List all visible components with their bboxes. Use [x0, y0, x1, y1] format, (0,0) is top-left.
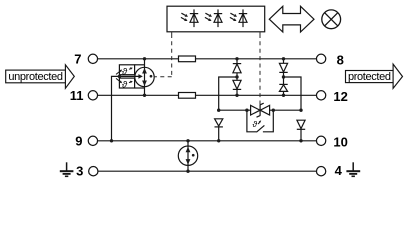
wire W1 (terminal 7 to 8)	[98, 58, 317, 60]
svg-text:ϑ: ϑ	[252, 119, 257, 129]
svg-text:8: 8	[337, 53, 344, 68]
terminal 10	[316, 136, 325, 145]
status LED 1	[181, 9, 198, 27]
svg-text:4: 4	[335, 163, 343, 178]
TVS suppressor diode	[251, 103, 270, 117]
resistor R1	[179, 56, 196, 62]
ground symbol (terminal 4)	[346, 162, 360, 176]
wire: thermal switches to ground line	[112, 76, 120, 140]
ground symbol (terminal 3)	[60, 162, 74, 176]
status LED 3	[230, 9, 247, 27]
dashed status link (GDT F1 to indicator box)	[154, 32, 172, 77]
terminal 7	[88, 54, 97, 63]
unprotected label arrow	[6, 65, 75, 89]
thermal disconnect switch ST1	[116, 65, 145, 75]
terminal 3	[89, 167, 98, 176]
wire: D1/D2 tap to suppressor row	[219, 77, 237, 110]
wire: suppressor row	[219, 109, 301, 111]
diode D2	[233, 77, 241, 95]
gas discharge tube F2	[178, 141, 197, 171]
thermal disconnect switch ST2	[116, 78, 145, 88]
terminal 9	[88, 136, 97, 145]
bidirectional arrow	[269, 6, 314, 32]
gas discharge tube F1 (3-electrode)	[119, 59, 154, 96]
resistor R2	[179, 93, 196, 99]
svg-text:7: 7	[74, 52, 81, 67]
junction dots	[110, 57, 303, 173]
indicator box	[167, 6, 265, 32]
svg-text:unprotected: unprotected	[8, 71, 62, 83]
svg-text:ϑ: ϑ	[122, 66, 128, 77]
terminal 8	[316, 54, 325, 63]
wire W2 (terminal 11 to 12)	[98, 94, 317, 96]
wire W9 (terminal 9 to 10)	[98, 140, 317, 142]
terminal 11	[88, 91, 97, 100]
svg-text:3: 3	[76, 163, 83, 178]
status LED 2	[205, 9, 222, 27]
terminal 12	[316, 91, 325, 100]
wire: D3/D4 tap to right branch	[284, 77, 302, 110]
diode D5	[215, 119, 223, 141]
svg-text:11: 11	[70, 88, 84, 103]
diode D4	[279, 77, 287, 95]
wire W3 (terminal 3 to 4)	[98, 170, 316, 172]
thermal fail-safe switch (TVS)	[247, 110, 273, 132]
protected label arrow	[346, 64, 403, 88]
diode D1	[233, 59, 241, 77]
svg-text:9: 9	[75, 133, 82, 148]
indicator lamp	[322, 10, 341, 29]
diode D6	[297, 120, 305, 141]
dashed status link (TVS to indicator box)	[259, 32, 261, 105]
svg-text:10: 10	[333, 135, 347, 150]
diode D3	[279, 59, 287, 77]
svg-text:protected: protected	[348, 71, 391, 83]
svg-text:ϑ: ϑ	[122, 80, 128, 91]
terminal 4	[316, 167, 325, 176]
svg-text:12: 12	[333, 89, 347, 104]
